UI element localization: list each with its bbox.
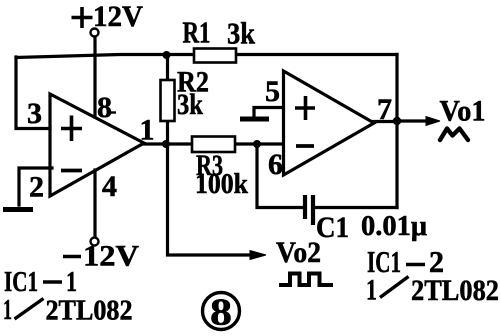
op-amp U1 (IC1-1) triangle bbox=[50, 94, 144, 196]
wire +12V supply vertical to pin 8 bbox=[93, 36, 96, 117]
arrowhead Vo2 bbox=[250, 251, 266, 260]
wire left vertical to pin 3 bbox=[16, 57, 50, 129]
wire op-amp2 output bbox=[374, 120, 397, 123]
op-amp U1 minus input symbol bbox=[61, 169, 82, 173]
figure number circled 8 bbox=[203, 293, 240, 330]
node op-amp1 output junction bbox=[162, 140, 170, 148]
node R1/R2 junction bbox=[163, 51, 171, 59]
wire top rail bbox=[16, 55, 397, 58]
label -12V bbox=[63, 255, 81, 259]
svg-text:2TL082: 2TL082 bbox=[411, 274, 499, 307]
svg-text:5: 5 bbox=[265, 75, 280, 108]
ground at pin 2 bbox=[3, 207, 33, 212]
svg-text:3: 3 bbox=[27, 97, 42, 130]
svg-text:12V: 12V bbox=[83, 240, 139, 273]
resistor R1 body bbox=[194, 49, 236, 63]
svg-text:8: 8 bbox=[210, 292, 232, 334]
wire R2 bottom lead bbox=[166, 121, 169, 144]
waveform sine at Vo1 bbox=[440, 129, 468, 141]
wire pin 4 to -12V bbox=[93, 170, 96, 237]
svg-text:3k: 3k bbox=[177, 88, 203, 121]
wire op-amp1 output to R3 bbox=[144, 142, 192, 145]
op-amp U1 plus input symbol bbox=[61, 116, 82, 142]
tick after pin 8 label bbox=[110, 111, 116, 113]
svg-text:1: 1 bbox=[3, 295, 12, 326]
wire R2 top lead bbox=[166, 55, 169, 81]
node Vo1 output junction bbox=[393, 117, 401, 125]
svg-text:0.01μ: 0.01μ bbox=[361, 211, 427, 242]
wire pin6 down to C1 bbox=[257, 144, 303, 208]
svg-text:12V: 12V bbox=[93, 0, 143, 33]
svg-text:4: 4 bbox=[102, 170, 117, 203]
op-amp U2 minus input symbol bbox=[296, 144, 314, 148]
svg-text:8: 8 bbox=[97, 91, 112, 124]
resistor R2 body bbox=[161, 80, 175, 121]
capacitor C1 plates bbox=[305, 195, 313, 225]
ground at pin 5 bbox=[240, 117, 269, 122]
wire pin 2 to ground bbox=[19, 168, 52, 205]
op-amp U2 (IC1-2) triangle bbox=[284, 71, 375, 175]
svg-text:1: 1 bbox=[140, 114, 155, 147]
svg-text:R1: R1 bbox=[183, 15, 211, 50]
wire pin 5 stub bbox=[254, 108, 283, 116]
wire Vo1 lead bbox=[397, 119, 428, 122]
wire R3 right to pin 6 bbox=[235, 142, 283, 145]
svg-text:Vo2: Vo2 bbox=[276, 236, 321, 269]
svg-text:1: 1 bbox=[366, 274, 377, 307]
terminal -12V bbox=[91, 238, 99, 246]
svg-text:IC1: IC1 bbox=[4, 267, 38, 298]
waveform square at Vo2 bbox=[279, 274, 333, 286]
svg-text:2TL082: 2TL082 bbox=[46, 296, 133, 327]
svg-text:3k: 3k bbox=[227, 16, 256, 51]
svg-text:100k: 100k bbox=[195, 169, 248, 200]
svg-text:7: 7 bbox=[377, 93, 392, 126]
wire right vertical rail bbox=[395, 55, 398, 208]
op-amp U2 plus input symbol bbox=[295, 96, 315, 120]
arrowhead Vo1 bbox=[426, 117, 440, 126]
node R3/pin6 junction bbox=[253, 140, 261, 148]
wire Vo2 branch bbox=[168, 144, 253, 255]
wire C1 right to output rail bbox=[315, 206, 397, 209]
terminal +12V bbox=[91, 29, 99, 37]
svg-text:1: 1 bbox=[66, 267, 77, 298]
resistor R3 body bbox=[192, 137, 235, 153]
svg-text:Vo1: Vo1 bbox=[440, 95, 486, 128]
svg-text:2: 2 bbox=[29, 171, 44, 204]
svg-text:6: 6 bbox=[268, 148, 283, 181]
label +12V bbox=[72, 7, 93, 28]
